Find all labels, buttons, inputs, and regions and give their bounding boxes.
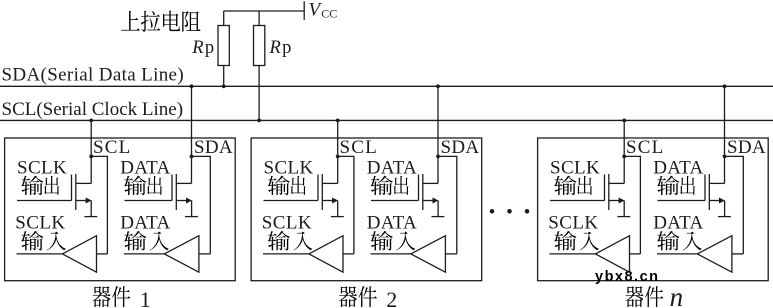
svg-text:1: 1 <box>140 287 151 308</box>
ground SCLK MOSFET device 1 <box>84 216 97 218</box>
wire SDA node to DATA input buffer device 1 <box>192 156 211 254</box>
wire SCL node to SCLK input buffer device n <box>624 156 640 254</box>
svg-text:SDA: SDA <box>441 137 480 158</box>
label SDA(Serial Data Line) <box>2 65 185 86</box>
svg-text:SCL: SCL <box>93 137 131 158</box>
label DATA input device 2 <box>367 212 417 233</box>
wire SCL node to SCLK input buffer device 2 <box>338 156 354 254</box>
label SCLK input device n <box>548 212 598 233</box>
node ellipsis (more devices) <box>490 209 530 214</box>
label 输入 (input) SCLK device 1 <box>21 231 66 251</box>
svg-text:SDA: SDA <box>194 137 233 158</box>
node SCL inside device n <box>622 155 626 159</box>
svg-text:R: R <box>191 38 203 58</box>
ground SCLK MOSFET device n <box>617 216 630 218</box>
node resistor Rp1 to SDA bus <box>222 84 226 88</box>
ground DATA MOSFET device 1 <box>185 216 198 218</box>
transistor SCLK output MOSFET device 2 <box>264 174 339 217</box>
wire SCL bus line <box>0 119 773 121</box>
transistor SCLK output MOSFET device 1 <box>17 174 92 217</box>
node SCL inside device 1 <box>89 155 93 159</box>
node junction on SDA bus device 1 <box>190 84 194 88</box>
caption 器件 2 <box>339 286 397 308</box>
svg-text:SCLK: SCLK <box>17 157 67 178</box>
svg-text:SCL(Serial Clock Line): SCL(Serial Clock Line) <box>2 99 184 120</box>
node SDA inside device n <box>723 155 727 159</box>
buffer DATA input device 2 <box>371 236 457 273</box>
pin label SCL device 1 <box>93 137 131 158</box>
wire SDA drop into device n <box>724 86 726 183</box>
wire SDA node to DATA input buffer device n <box>725 156 744 254</box>
svg-text:SCL: SCL <box>340 137 378 158</box>
wire Vcc rail <box>224 10 305 12</box>
label DATA output device 2 <box>367 157 417 178</box>
node junction on SCL bus device 1 <box>89 119 93 123</box>
ground SCLK MOSFET device 2 <box>331 216 344 218</box>
node resistor Rp2 to SCL bus <box>257 119 261 123</box>
svg-text:SCLK: SCLK <box>15 212 65 233</box>
node SDA inside device 1 <box>190 155 194 159</box>
label 输入 (input) SCLK device n <box>554 231 599 251</box>
label watermark ybx8.cn <box>595 269 660 285</box>
svg-text:CC: CC <box>321 6 337 20</box>
node SCL inside device 2 <box>336 155 340 159</box>
node junction on SDA bus device n <box>723 84 727 88</box>
label 输出 (output) SCLK device 2 <box>268 176 306 196</box>
node SDA inside device 2 <box>436 155 440 159</box>
svg-text:DATA: DATA <box>367 212 417 233</box>
svg-text:SCL: SCL <box>626 137 664 158</box>
buffer SCLK input device 1 <box>17 236 108 273</box>
label DATA input device 1 <box>120 212 170 233</box>
label SCLK output device n <box>550 157 600 178</box>
buffer SCLK input device 2 <box>263 236 354 273</box>
svg-text:DATA: DATA <box>120 212 170 233</box>
wire SCL node to SCLK input buffer device 1 <box>91 156 107 254</box>
label SCLK output device 2 <box>264 157 314 178</box>
label 输出 (output) SCLK device n <box>554 176 592 196</box>
device box 器件 n <box>538 138 769 281</box>
label DATA output device n <box>653 157 703 178</box>
svg-text:SCLK: SCLK <box>264 157 314 178</box>
label 输出 (output) DATA device 2 <box>371 176 409 196</box>
wire SCL drop into device 1 <box>90 120 92 183</box>
label 输出 (output) DATA device n <box>657 176 695 196</box>
label SCLK input device 1 <box>15 212 65 233</box>
node junction on SCL bus device 2 <box>336 119 340 123</box>
svg-text:p: p <box>282 38 291 58</box>
wire SDA drop into device 1 <box>191 86 193 183</box>
label 输入 (input) DATA device 2 <box>371 231 416 251</box>
pin label SDA device n <box>727 137 766 158</box>
buffer DATA input device 1 <box>124 236 210 273</box>
wire SDA node to DATA input buffer device 2 <box>438 156 457 254</box>
ground DATA MOSFET device n <box>718 216 731 218</box>
svg-text:SDA: SDA <box>727 137 766 158</box>
label 输出 (output) DATA device 1 <box>124 176 162 196</box>
svg-text:ybx8.cn: ybx8.cn <box>595 269 660 285</box>
ground DATA MOSFET device 2 <box>432 216 445 218</box>
node junction on SCL bus device n <box>622 119 626 123</box>
resistor Rp2 <box>254 11 265 120</box>
pin label SCL device n <box>626 137 664 158</box>
label DATA output device 1 <box>120 157 170 178</box>
label 输入 (input) SCLK device 2 <box>268 231 313 251</box>
label 输出 (output) SCLK device 1 <box>21 176 59 196</box>
buffer DATA input device n <box>657 236 743 273</box>
svg-text:p: p <box>205 38 214 58</box>
power Vcc terminal tick <box>303 1 305 20</box>
node junction on SDA bus device 2 <box>436 84 440 88</box>
wire SCL drop into device 2 <box>337 120 339 183</box>
label Rp2 <box>269 38 292 58</box>
transistor DATA output MOSFET device 1 <box>125 174 193 217</box>
svg-text:SCLK: SCLK <box>262 212 312 233</box>
svg-text:DATA: DATA <box>653 157 703 178</box>
wire SDA drop into device 2 <box>437 86 439 183</box>
wire SCL drop into device n <box>623 120 625 183</box>
svg-text:2: 2 <box>386 287 397 308</box>
svg-text:DATA: DATA <box>653 212 703 233</box>
pin label SDA device 1 <box>194 137 233 158</box>
svg-text:DATA: DATA <box>120 157 170 178</box>
label SCL(Serial Clock Line) <box>2 99 184 120</box>
pin label SCL device 2 <box>340 137 378 158</box>
caption 器件 1 <box>92 286 150 308</box>
svg-text:DATA: DATA <box>367 157 417 178</box>
buffer SCLK input device n <box>550 236 641 273</box>
label 上拉电阻 (pull-up resistor) <box>121 11 200 32</box>
label 输入 (input) DATA device 1 <box>124 231 169 251</box>
label 输入 (input) DATA device n <box>657 231 702 251</box>
device box 器件 2 <box>251 138 482 281</box>
svg-text:n: n <box>670 282 684 308</box>
label Vcc <box>309 0 338 20</box>
label Rp1 <box>191 38 214 58</box>
label SCLK input device 2 <box>262 212 312 233</box>
svg-text:SDA(Serial Data Line): SDA(Serial Data Line) <box>2 65 185 86</box>
label SCLK output device 1 <box>17 157 67 178</box>
wire SDA bus line <box>0 85 773 87</box>
caption 器件 n <box>625 282 683 308</box>
resistor Rp1 <box>218 11 229 86</box>
svg-text:SCLK: SCLK <box>550 157 600 178</box>
svg-text:R: R <box>269 38 281 58</box>
svg-text:SCLK: SCLK <box>548 212 598 233</box>
device box 器件 1 <box>5 138 236 281</box>
transistor DATA output MOSFET device n <box>658 174 726 217</box>
label DATA input device n <box>653 212 703 233</box>
transistor SCLK output MOSFET device n <box>550 174 625 217</box>
pin label SDA device 2 <box>441 137 480 158</box>
transistor DATA output MOSFET device 2 <box>371 174 439 217</box>
